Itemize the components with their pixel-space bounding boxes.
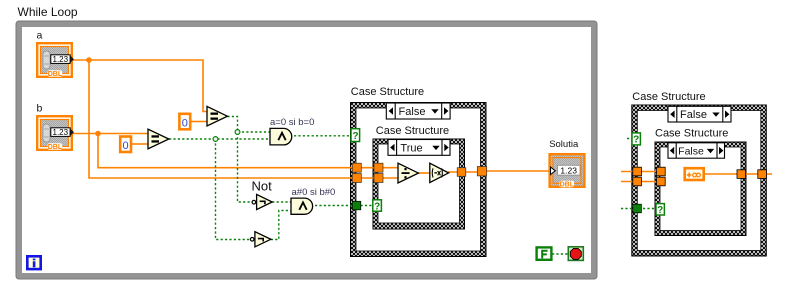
svg-text:False: False: [680, 109, 707, 121]
wire constant 0 (upper) to equal node: [191, 121, 207, 123]
svg-text:DBL: DBL: [48, 71, 63, 78]
wire equal1 out to AND gate (green): [169, 138, 270, 140]
equal node (a=0): [207, 106, 227, 126]
svg-text:?: ?: [633, 135, 639, 146]
wire b out to equal node: [73, 133, 148, 135]
selector terminal ? (inner right case): [656, 204, 664, 216]
tunnel lower (outer right case): [633, 177, 642, 186]
svg-text:1.23: 1.23: [53, 55, 69, 64]
wire divide to negate: [418, 172, 431, 174]
wire negate to case tunnels: [448, 171, 487, 173]
negate node: [430, 163, 449, 182]
case structure (outer, right standalone) border: [632, 105, 767, 256]
node B junction on wire b: [95, 131, 101, 137]
constant +infinity: [685, 168, 704, 180]
svg-text:False: False: [399, 106, 426, 118]
wire tunnels to divide inputs (lower): [361, 177, 398, 179]
constant 0 (lower, for b): [120, 137, 131, 153]
wire a out to = node column: [73, 60, 207, 112]
svg-text:1.23: 1.23: [53, 128, 69, 137]
equal node (b=0): [148, 129, 169, 149]
tunnel out (inner right case): [737, 170, 746, 179]
iteration terminal i: [27, 256, 40, 269]
tunnel green (outer right case): [633, 204, 642, 213]
svg-text:a=0 si b=0: a=0 si b=0: [270, 117, 314, 128]
svg-text:DBL: DBL: [560, 182, 575, 189]
case structure (inner, right standalone) border: [655, 142, 746, 236]
NOT gate 2: [250, 232, 270, 247]
svg-text:Case Structure: Case Structure: [376, 125, 449, 137]
selector terminal ? (inner left case): [373, 200, 382, 213]
svg-text:?: ?: [374, 201, 380, 212]
tunnel upper (outer left case): [352, 163, 361, 172]
wire a branch down to lower tunnel: [89, 60, 353, 178]
svg-text:Case Structure: Case Structure: [351, 86, 424, 98]
svg-text:0: 0: [182, 118, 188, 130]
case structure (outer, in while loop) border: [351, 103, 487, 257]
svg-text:a#0 si b#0: a#0 si b#0: [292, 187, 336, 198]
wire b branch down to upper tunnel: [98, 134, 353, 168]
selector terminal ? (outer left case): [351, 129, 360, 142]
node junction green 1: [213, 137, 218, 142]
svg-text:1.23: 1.23: [560, 165, 577, 175]
wire +inf out through right tunnels: [705, 173, 772, 175]
svg-text:Case Structure: Case Structure: [632, 91, 705, 103]
wire stub into right outer ? (green): [627, 138, 632, 140]
wire branch to AND top input (green): [238, 131, 271, 133]
wire stubs into right case (upper): [621, 171, 662, 173]
indicator Solutia: [549, 139, 584, 189]
wire stubs into right case (lower): [621, 181, 662, 183]
wire NOT2 to AND2 (green): [271, 211, 291, 240]
wire green tunnel to inner ? (green): [361, 205, 373, 207]
svg-text:b: b: [37, 103, 43, 115]
tunnel out (outer left case): [477, 167, 486, 176]
tunnel out (inner left case): [457, 168, 466, 177]
svg-text:While Loop: While Loop: [18, 5, 78, 19]
wire AND2 out to green tunnel (green): [315, 205, 353, 207]
selector label (inner right case) "False": [668, 143, 725, 158]
wire equal2 out down to AND and NOT (green): [227, 117, 252, 203]
node A junction on wire a: [86, 57, 92, 63]
wire case out to Solutia: [487, 170, 550, 172]
selector terminal ? (outer right case): [632, 133, 640, 146]
loop condition stop terminal: [568, 247, 583, 261]
tunnel upper (inner right case): [657, 167, 666, 176]
svg-text:Case Structure: Case Structure: [655, 127, 728, 139]
tunnel upper (inner left case): [374, 163, 383, 172]
wire NOT1 to AND2 (green): [272, 201, 291, 203]
svg-text:DBL: DBL: [48, 144, 63, 151]
svg-text:a: a: [37, 30, 43, 42]
svg-text:Not: Not: [252, 179, 273, 194]
svg-text:?: ?: [352, 131, 358, 142]
tunnel lower (outer left case): [352, 174, 361, 183]
svg-text:?: ?: [657, 205, 663, 216]
divide node: [398, 163, 418, 183]
AND gate U1 (a=0 si b=0): [270, 128, 292, 145]
case structure (inner, in while loop) border: [373, 139, 465, 229]
svg-text:Solutia: Solutia: [549, 139, 579, 150]
svg-text:False: False: [678, 146, 704, 158]
control a: [37, 30, 75, 78]
tunnel upper (outer right case): [633, 167, 642, 176]
tunnel out (outer right case): [758, 170, 767, 179]
control b: [37, 103, 75, 151]
node junction green 2: [235, 130, 240, 135]
wire tunnels to divide inputs (upper): [361, 167, 398, 169]
wire constant 0 (lower) to equal node: [132, 143, 148, 145]
wire F to loop condition (green): [552, 253, 568, 255]
svg-text:0: 0: [123, 140, 129, 152]
tunnel lower (inner left case): [374, 174, 383, 183]
while loop border: [16, 21, 597, 279]
constant F: [537, 247, 552, 259]
selector label (outer left case) "False": [386, 103, 450, 119]
selector label (outer right case) "False": [668, 106, 731, 122]
tunnel lower (inner right case): [657, 177, 666, 186]
wire AND1 out to case selector ? (green): [294, 135, 351, 137]
constant 0 (upper, for a): [179, 114, 190, 130]
tunnel green (outer left case): [352, 201, 361, 210]
wire branch down to NOT2 (green): [216, 139, 251, 240]
NOT gate 1: [252, 194, 272, 209]
svg-text:True: True: [400, 143, 422, 155]
selector label (inner left case) "True": [388, 140, 450, 156]
AND gate U2 (a#0 si b#0): [291, 198, 313, 214]
wire right green tunnel to inner ? (green): [621, 208, 656, 210]
